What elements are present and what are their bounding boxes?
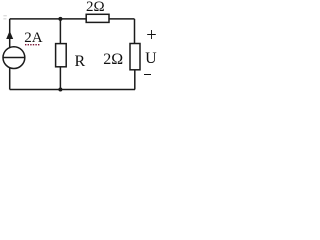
wire top	[10, 18, 135, 20]
label U	[145, 50, 157, 68]
current source arrow	[6, 31, 13, 39]
label 2A	[24, 30, 42, 47]
resistor R	[56, 44, 67, 67]
label 2ohm top	[86, 0, 105, 16]
label 2ohm right	[103, 51, 123, 69]
faint print artifact marks	[3, 15, 6, 19]
wire R bottom	[59, 67, 61, 90]
wire right lower	[134, 70, 136, 90]
wire R top	[59, 19, 61, 44]
current source I1	[3, 47, 25, 69]
resistor R2 2ohm horizontal	[86, 14, 109, 22]
wire bottom	[10, 89, 135, 91]
label plus	[146, 26, 156, 47]
label R	[75, 53, 86, 71]
wire right upper	[134, 19, 136, 44]
underline dots under 2A	[25, 44, 39, 45]
resistor R3 2ohm vertical	[130, 44, 140, 70]
label minus	[144, 74, 151, 76]
wire left upper	[9, 19, 11, 47]
junction top	[58, 17, 62, 21]
wire left lower	[9, 68, 11, 90]
junction bottom	[58, 88, 62, 92]
